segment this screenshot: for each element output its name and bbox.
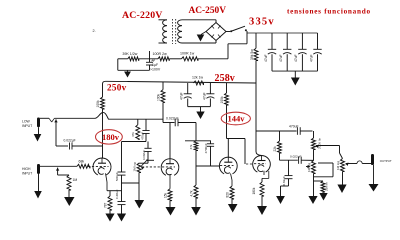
svg-text:0.068uF: 0.068uF xyxy=(142,149,146,160)
svg-text:1M log: 1M log xyxy=(336,161,340,170)
svg-text:47uF: 47uF xyxy=(279,54,283,62)
svg-text:1M: 1M xyxy=(73,178,78,182)
svg-text:47k: 47k xyxy=(131,132,135,137)
svg-text:100R 2w: 100R 2w xyxy=(153,52,168,56)
svg-text:820: 820 xyxy=(226,192,230,198)
svg-text:470uF: 470uF xyxy=(289,125,299,129)
svg-text:470pF: 470pF xyxy=(140,132,144,140)
svg-text:100R 1w: 100R 1w xyxy=(180,52,195,56)
svg-text:INPUT: INPUT xyxy=(22,172,32,176)
svg-text:1µF: 1µF xyxy=(152,63,158,67)
svg-text:15k: 15k xyxy=(163,192,167,198)
svg-text:4,7k: 4,7k xyxy=(189,190,193,196)
svg-text:47k: 47k xyxy=(189,144,193,149)
svg-text:25k lin: 25k lin xyxy=(325,182,329,191)
svg-text:0.82uF: 0.82uF xyxy=(282,176,286,186)
svg-text:39k 5w: 39k 5w xyxy=(250,49,254,60)
svg-text:LOW: LOW xyxy=(22,120,31,124)
svg-text:100k: 100k xyxy=(156,93,160,101)
svg-text:tensiones funcionando: tensiones funcionando xyxy=(287,8,371,16)
svg-text:0.022µF: 0.022µF xyxy=(166,116,179,120)
svg-text:39K 1/2w: 39K 1/2w xyxy=(122,52,137,56)
svg-text:787: 787 xyxy=(104,202,108,208)
svg-text:335v: 335v xyxy=(249,17,275,28)
svg-text:47uF: 47uF xyxy=(202,92,206,100)
svg-text:68k: 68k xyxy=(79,159,85,163)
svg-text:47uF: 47uF xyxy=(264,54,268,62)
svg-text:>100V: >100V xyxy=(150,68,161,72)
svg-text:OUTPUT: OUTPUT xyxy=(380,159,392,163)
svg-text:144v: 144v xyxy=(228,114,246,124)
svg-text:250v: 250v xyxy=(107,83,127,93)
svg-text:4700pF: 4700pF xyxy=(204,143,208,153)
svg-text:0.68uF: 0.68uF xyxy=(115,189,119,199)
svg-text:258v: 258v xyxy=(215,73,235,84)
svg-text:180v: 180v xyxy=(102,132,120,142)
svg-text:0.022µF: 0.022µF xyxy=(64,139,76,143)
svg-text:INPUT: INPUT xyxy=(22,124,32,128)
svg-text:AC-250V: AC-250V xyxy=(189,6,227,16)
svg-text:500pF: 500pF xyxy=(115,172,119,181)
svg-text:22k: 22k xyxy=(273,146,277,152)
svg-text:AC-220V: AC-220V xyxy=(122,10,163,21)
svg-text:0.022uF: 0.022uF xyxy=(290,154,301,158)
svg-text:47uF: 47uF xyxy=(180,92,184,100)
svg-text:47uF: 47uF xyxy=(294,54,298,62)
svg-text:100k: 100k xyxy=(96,100,100,108)
svg-text:2.: 2. xyxy=(93,29,96,33)
svg-text:12k 1w: 12k 1w xyxy=(192,76,204,80)
svg-text:180k: 180k xyxy=(252,187,256,194)
svg-text:1M log: 1M log xyxy=(133,162,137,171)
svg-text:HIGH: HIGH xyxy=(22,167,31,171)
svg-text:100k: 100k xyxy=(220,96,224,104)
svg-text:47uF: 47uF xyxy=(309,54,313,62)
